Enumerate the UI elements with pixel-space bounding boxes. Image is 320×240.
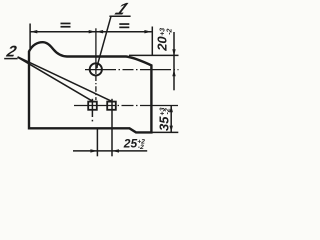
svg-text:+3: +3 xyxy=(159,28,166,36)
svg-text:-2: -2 xyxy=(164,108,171,114)
svg-text:25: 25 xyxy=(123,137,138,151)
svg-text:20: 20 xyxy=(155,36,170,52)
svg-text:-2: -2 xyxy=(138,144,144,151)
svg-text:2: 2 xyxy=(4,44,18,61)
svg-text:35: 35 xyxy=(157,116,172,131)
svg-text:-2: -2 xyxy=(166,28,173,34)
